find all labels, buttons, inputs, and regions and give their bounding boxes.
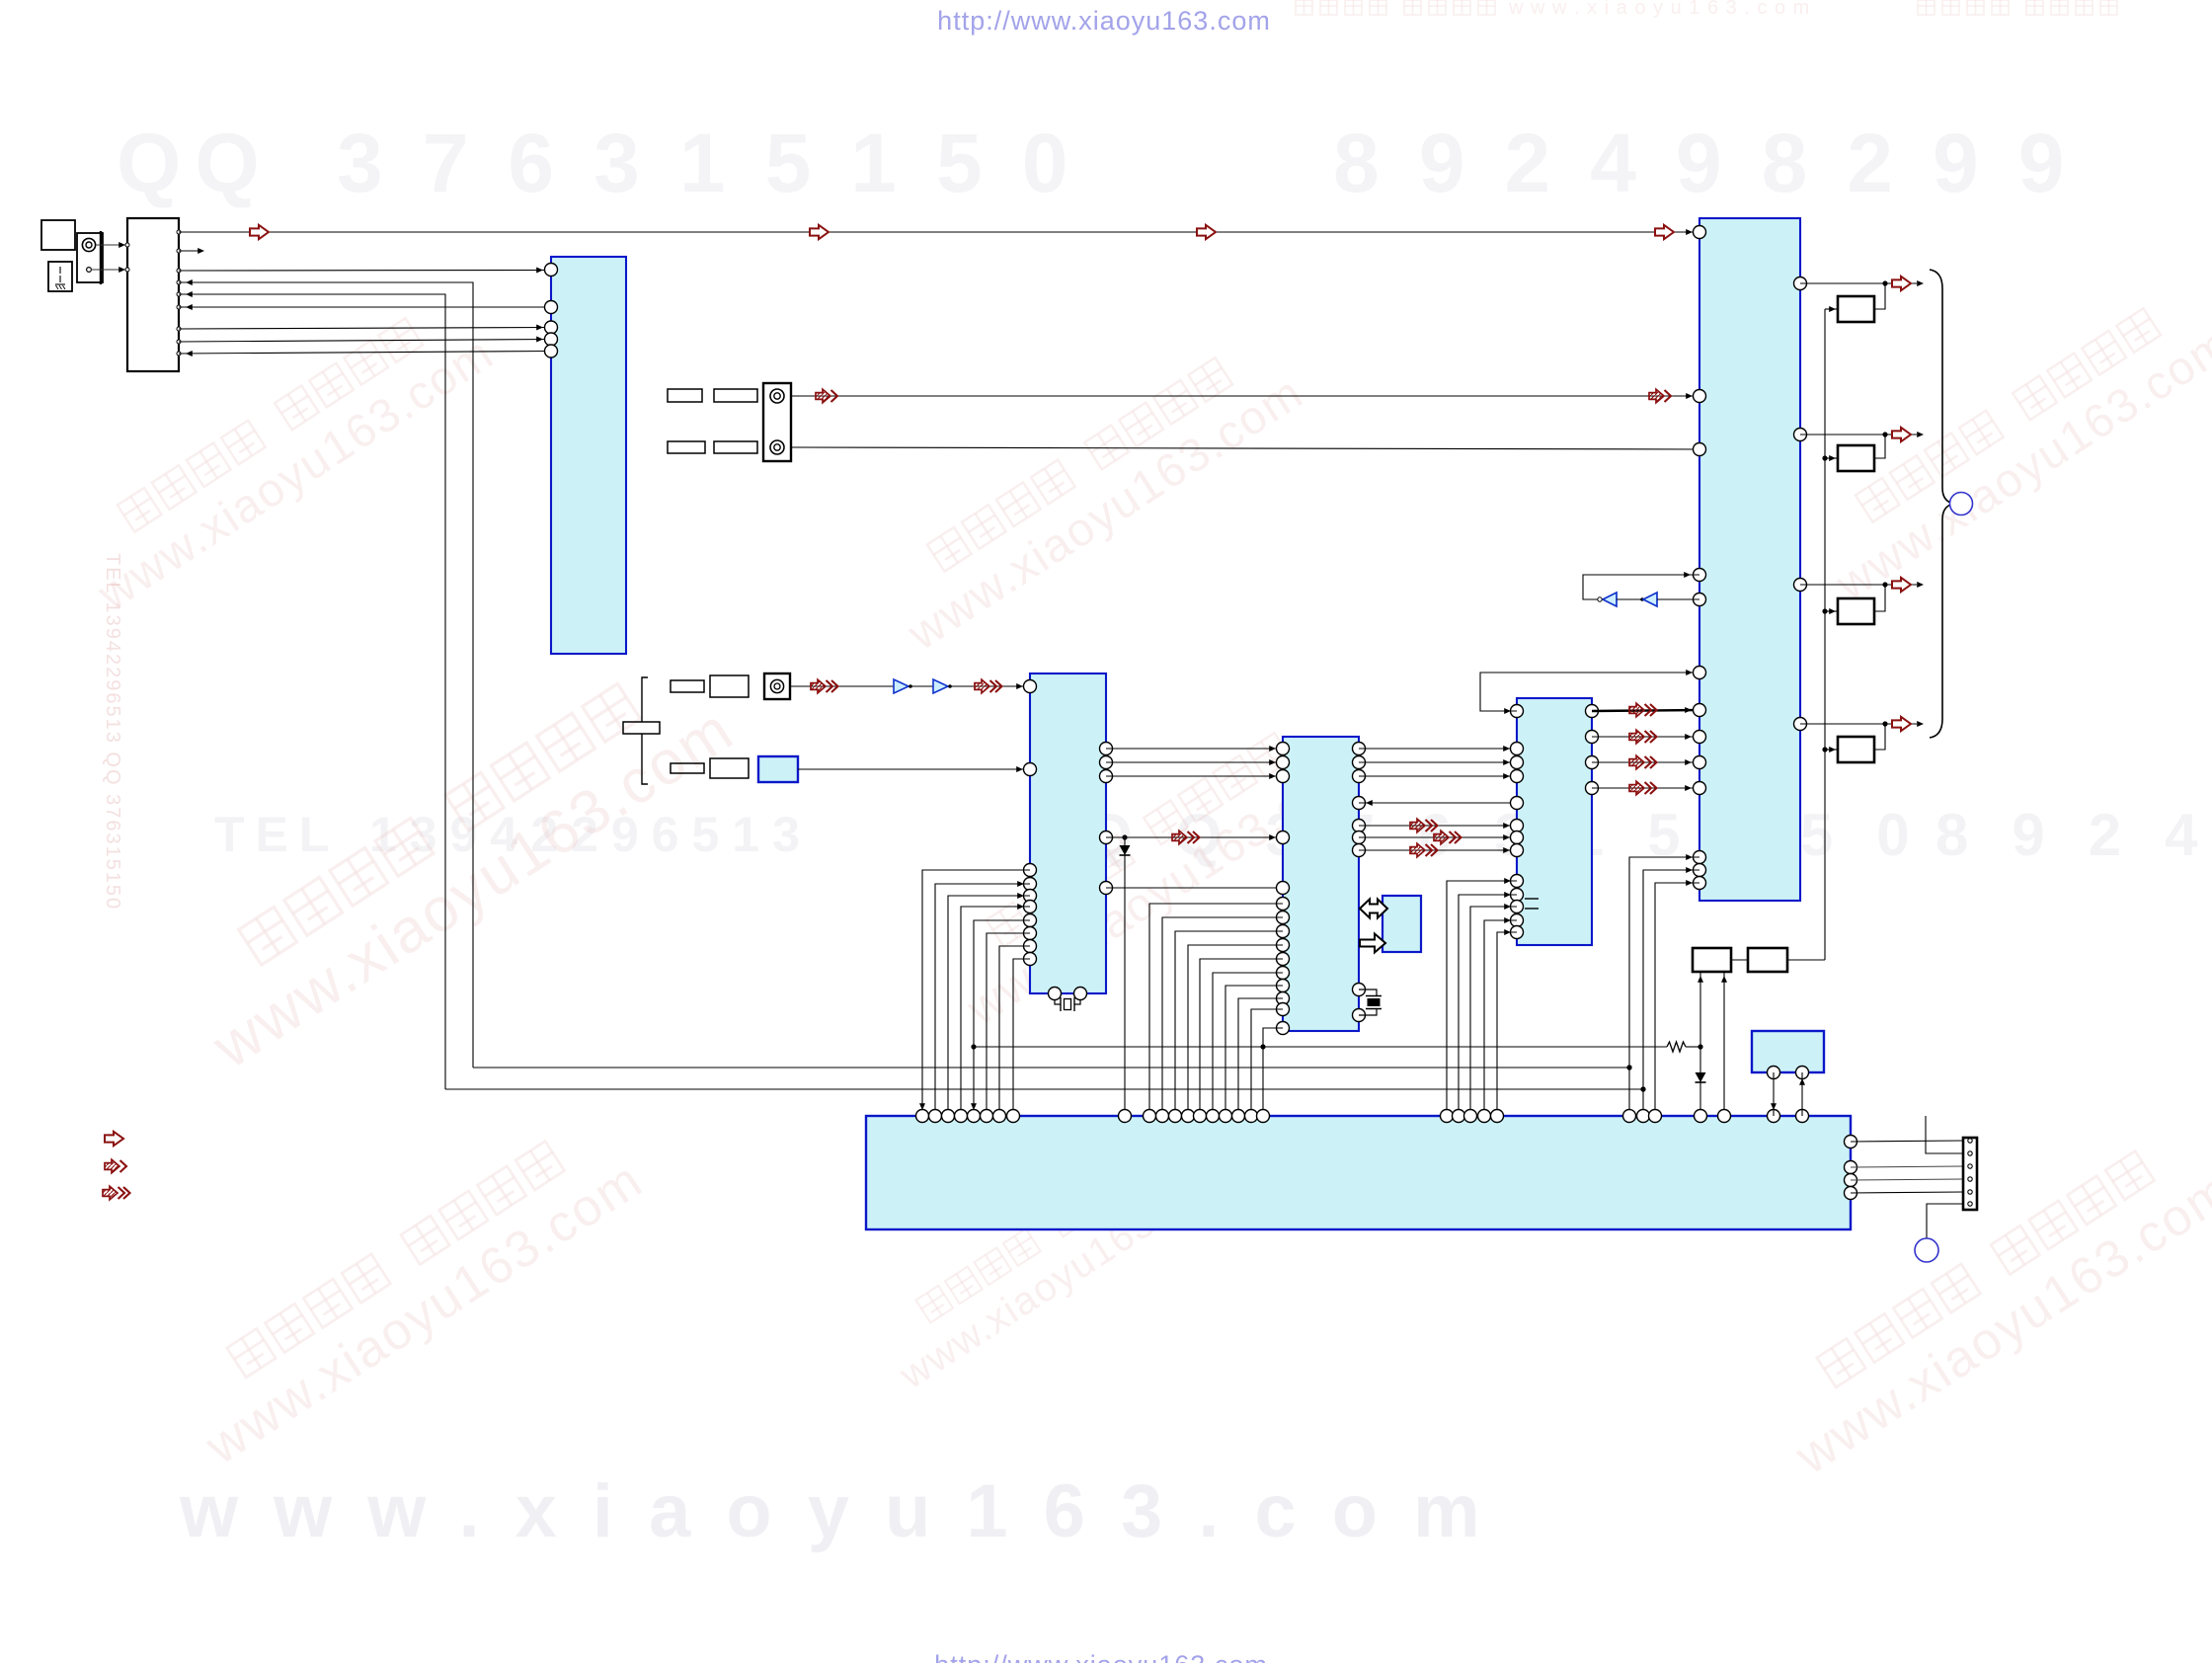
U2 lower-left pin y907 [1024,890,1037,903]
CN2 hole 4 [1968,1177,1972,1181]
down arrows into U6 group1 [919,1103,925,1110]
open arrow on TOP wire 2 [810,225,829,239]
U6 right pin y1195 [1845,1174,1857,1187]
thick wire U4-U5 y719 hatched [1592,710,1699,711]
watermark pink diagonal 4 [1802,279,2212,611]
filter box at y451 [1838,445,1874,471]
U6 top pin x999 [981,1110,993,1123]
wire U6 to strip hole3 [1851,1166,1963,1167]
U3 right pin y836 [1353,820,1366,832]
wire CN1 to U1 pin5 [179,352,551,355]
block U7 (small cyan box above U6 right) [1752,1031,1824,1072]
crystal X1 under U2 [1055,1000,1061,1005]
watermark pink diagonal 7 [168,1109,653,1476]
wire J4 to U2 pin (y695) [790,685,1030,687]
U6 top pin x1215 [1194,1110,1207,1123]
wire U2 pin y971 down to U6 at x1026 [1013,959,1030,1116]
U4 right pin y798 [1586,782,1599,795]
box U9 (small cyan box right of U3) [1382,896,1421,952]
resistor R5 [714,441,757,453]
U3 right pin y786 [1353,770,1366,783]
IC U4 (cyan block) [1517,698,1592,945]
U5 left pin y894 [1694,877,1706,890]
wire J2 to connector pin 1 [96,244,125,246]
inverter INV1 [1603,593,1617,606]
wire U3 pin y998 down to U6 at x1241 [1225,986,1283,1116]
hatched arrow dangling 2 [105,1159,119,1173]
U6 top pin x1139 [1119,1110,1132,1123]
U6 top pin x1746 [1718,1110,1731,1123]
box SW1 with antenna symbol [48,262,72,291]
U2 lower-left pin y932 [1024,914,1037,927]
U6 top pin x1228 [1207,1110,1220,1123]
IC U1 (tall cyan block) [551,257,626,654]
wire INV2 to U5 pin [1657,598,1699,600]
U2 right pin y772 [1100,756,1113,769]
U5 right pin y287 [1794,277,1807,290]
svg-text:TEL: TEL [214,807,340,862]
svg-text:w w w . x i a o y u 1 6 3 . c: w w w . x i a o y u 1 6 3 . c o m [1508,0,1810,19]
U4 left pin y758 [1511,743,1524,755]
double arrow U3-U9 [1360,900,1387,918]
U6 top pin x1796 [1768,1110,1780,1123]
strip connector CN2 [1963,1138,1977,1210]
U6 top pin x1477 [1453,1110,1465,1123]
CN2 hole 2 [1968,1151,1972,1155]
wire U5 right pin y440 [1800,434,1885,436]
IC U3 (cyan block) [1283,737,1359,1031]
U4 lower-left pin y944 [1511,926,1524,939]
U6 top pin x986 [968,1110,981,1123]
wire U7 down to U6 [1773,1072,1775,1116]
connector CN1 right pin y346 [177,340,181,344]
U7 bottom pins [1768,1067,1780,1079]
hatched arrow on wire y401 near J3 [816,389,830,403]
wire U4 pin y892 down to U6 at x1465 [1447,881,1517,1116]
box B1 of chain [1693,948,1731,972]
wire U4 pin y944 down to U6 at x1516 [1497,932,1517,1116]
U6 right pin y1208 [1845,1187,1857,1200]
stub wire to strip hole2 [1926,1116,1963,1153]
wire to filter box y733 [1874,724,1885,750]
U3 lower-left pin y929 [1277,911,1290,924]
wire U5 right pin y592 [1800,584,1885,586]
wire J3 to U5 pin (y401) [791,395,1699,397]
U3 lower-left pin y915 [1277,898,1290,911]
svg-text:892498299: 892498299 [1333,117,2103,209]
U2 lower-left pin y971 [1024,953,1037,966]
wire CN1 to U1 pin2 [179,306,551,308]
U4 lower-left pin y918 [1511,901,1524,913]
wires U5 lower-left to U6 group4 [1629,857,1699,1116]
wire between inverters [1617,598,1641,600]
open arrow dangling 1 [105,1132,123,1146]
wire U6 up to B1 (with diode D2) [1699,972,1701,1116]
U6 top pin x1650 [1623,1110,1636,1123]
open arrow on TOP wire 4 [1655,225,1674,239]
U6 top pin x1241 [1220,1110,1232,1123]
U6 top pin x1267 [1245,1110,1258,1123]
wire U4-U5 y798 hatched [1592,787,1699,789]
filter box at y300 [1838,296,1874,322]
wire U3-U4 y836 hatched [1359,825,1517,827]
U6 top pin x1489 [1464,1110,1477,1123]
U6 top pin x1177 [1156,1110,1169,1123]
U4 left pin y836 [1511,820,1524,832]
U4 left pin y861 [1511,844,1524,857]
U3 left pin y772 [1277,756,1290,769]
blue circle node bottom [1915,1238,1938,1262]
U3 right pin y861 [1353,844,1366,857]
wire U2 pin y918 down to U6 at x973 [961,907,1030,1116]
connector CN1 right pin y311 [177,305,181,309]
U2 bottom pins [1049,988,1062,1000]
U6 top pin x1190 [1169,1110,1182,1123]
wire U3 pin y915 down to U6 at x1164 [1149,904,1283,1116]
connector CN1 right pin y254 [177,249,181,253]
U4 left pin y786 [1511,770,1524,783]
wire U2 pin y945 down to U6 at x999 [987,933,1030,1116]
CN2 hole 1 [1968,1139,1972,1143]
svg-text:www.xiaoyu163.com: www.xiaoyu163.com [179,1469,1516,1553]
U5 left pin y746 [1694,731,1706,744]
box J1 (small square) [41,220,75,250]
small cyan box U8 [758,756,798,782]
wire U3-U4 y861 hatched [1359,849,1517,851]
U3 left pin y848 [1277,831,1290,844]
connector CN1 right pin y298 [177,292,181,296]
resistor R1 on bus A [1667,1042,1686,1052]
U3 left pin y786 [1277,770,1290,783]
U2 right pin y758 [1100,743,1113,755]
U6 top pin x1164 [1144,1110,1156,1123]
wire filter box to rail y440 [1825,457,1838,459]
U6 top pin x1503 [1478,1110,1491,1123]
svg-text:http://www.xiaoyu163.com: http://www.xiaoyu163.com [934,1650,1268,1663]
resistor R2 [668,389,702,402]
open arrow y287 [1892,277,1911,290]
CN2 hole 3 [1968,1164,1972,1168]
U2 lower-left pin y881 [1024,864,1037,877]
IC U6 (bottom long cyan block) [866,1116,1851,1229]
U6 top pin x934 [916,1110,929,1123]
U3 right pin y758 [1353,743,1366,755]
watermark pink diagonal 6 [1758,1119,2212,1486]
U6 top pin x960 [942,1110,955,1123]
wire U8 to U2 pin (y779) [798,768,1030,770]
U6 top pin x1722 [1695,1110,1707,1123]
wire between chain boxes [1731,959,1748,961]
wire filter box to rail y592 [1825,610,1838,612]
U5 left pin y719 [1694,704,1706,717]
bus wire B horizontal [473,1067,1629,1069]
watermark pink diagonal 8 [871,1118,1240,1397]
wire CN1 to U1 pin3 [179,328,551,330]
open arrow y440 [1892,428,1911,441]
U6 right pin y1182 [1845,1161,1857,1174]
U3 lower-left pin y985 [1277,967,1290,980]
wire CN1 pin5 to bus C [179,294,445,1089]
U6 top pin x1676 [1649,1110,1662,1123]
wire U3 pin y929 down to U6 at x1177 [1162,917,1283,1116]
wire U3 pin y943 down to U6 at x1190 [1175,931,1283,1116]
wire U2 pin y907 down to U6 at x960 [948,896,1030,1116]
single arrow U3-U9 [1360,934,1385,953]
crystal X2 right of U3 [1359,990,1377,995]
svg-text:http://www.xiaoyu163.com: http://www.xiaoyu163.com [937,6,1271,36]
U2 left pins top [1024,680,1037,693]
wire to filter box y592 [1874,585,1885,611]
connector CN1 right pin y358 [177,352,181,356]
wire filter box to rail y287 [1825,308,1838,310]
U6 top pin x1279 [1257,1110,1270,1123]
bus wire A horizontal [974,1046,1667,1048]
U6 top pin x1203 [1182,1110,1195,1123]
U6 top pin x1254 [1232,1110,1245,1123]
U5 left pin y235 [1694,226,1706,239]
wire U4 pin y932 down to U6 at x1503 [1484,920,1517,1116]
box B2 of chain [1748,948,1787,972]
U3 lower-left pin y957 [1277,939,1290,952]
wire U3 pin y1011 down to U6 at x1254 [1238,998,1283,1116]
wire U6 up to B1 second [1723,972,1725,1116]
U3 left pin y899 [1277,882,1290,895]
wire net TOP from CN1 to U5 [179,231,1699,233]
U3 left pin y758 [1277,743,1290,755]
wire U4 wrap to U5 pin y682 [1480,673,1699,711]
U1 pin y331.5 [545,321,558,334]
connector CN1 left pins [125,243,129,247]
hatched arrow on wire y695 near J4 [811,679,826,693]
U3 right pin y813 [1353,797,1366,810]
wire U6 to strip hole5 [1851,1192,1963,1193]
inverter INV2 [1643,593,1657,606]
watermark top-right faint pink row [1296,0,2117,19]
wire J2 to connector pin 2 [91,269,125,271]
capacitor dashes inside U4 [1525,898,1539,900]
wire CN1 to U1 pin4 [179,340,551,343]
RCA jack J2 [77,233,103,282]
U4 lower-left pin y892 [1511,875,1524,888]
wire U2-U3 y786 [1106,775,1283,777]
U5 left pin y772 [1694,756,1706,769]
wire U3 pin y1041 down to U6 at x1279 [1263,1028,1283,1116]
U5 left pin y681 [1694,667,1706,679]
U2 right pin y786 [1100,770,1113,783]
wire strip hole6 to blue node [1927,1204,1963,1238]
U4 lower-left pin y932 [1511,914,1524,927]
connector CN1 right pin y274 [177,269,181,273]
hatched arrow on wire y695 near U2 [975,679,989,693]
U3 lower-left pin y998 [1277,980,1290,992]
connector CN1 right pin y286 [177,280,181,284]
U6 right pin y1156 [1845,1136,1857,1148]
wire U4 pin y906 down to U6 at x1477 [1459,895,1517,1116]
U6 top pin x1465 [1441,1110,1454,1123]
U3 lower-left pin y943 [1277,925,1290,938]
U5 right pin y733 [1794,718,1807,731]
U6 top pin x947 [929,1110,942,1123]
U6 top pin x1012 [993,1110,1006,1123]
resistor R8 [671,763,704,773]
U4 right pin y746 [1586,731,1599,744]
resistor R6 [671,680,704,692]
wire U4-U5 y772 hatched [1592,761,1699,763]
svg-text:376315150: 376315150 [337,117,1107,209]
U3 right pin y848 [1353,831,1366,844]
inverter loop wires at U5 [1583,575,1699,599]
U4 left pin y772 [1511,756,1524,769]
U2 lower-left pin y918 [1024,901,1037,913]
U5 left pin y401 [1694,390,1706,403]
U3 lower-left pin y1041 [1277,1022,1290,1035]
U4 left pin y813 [1511,797,1524,810]
U5 left pin y607 [1694,594,1706,606]
U6 top pin x1516 [1491,1110,1504,1123]
U2 lower-left pin y958 [1024,940,1037,953]
wire U3 pin y957 down to U6 at x1203 [1188,945,1283,1116]
U2 lower-left pin y895 [1024,878,1037,891]
wire U2 pin y958 down to U6 at x1012 [999,946,1030,1116]
wire U4-U5 y746 hatched [1592,736,1699,738]
wire filter box to rail y733 [1825,749,1838,751]
U4 right pin y772 [1586,756,1599,769]
U4 left pin y848 [1511,831,1524,844]
U3 right pin y772 [1353,756,1366,769]
filter box at y746 [1838,737,1874,762]
watermark pink diagonal 1 [64,289,504,621]
U4 lower-left pin y906 [1511,889,1524,902]
U3 lower-left pin y1011 [1277,992,1290,1005]
U4 right pin y720 [1586,705,1599,718]
buffer B2 [933,679,948,693]
wire U3-U4 y786 [1359,775,1517,777]
wire U2-U3 y758 [1106,748,1283,750]
U6 top pin x973 [955,1110,968,1123]
watermark pink diagonal 3 [874,329,1313,661]
wire U6 to strip hole4 [1851,1179,1963,1180]
wire U2-U3 y899 [1106,887,1283,889]
diode D1 [1124,837,1126,1116]
resistor R9 [710,758,749,778]
connector CN1 right pin y235 [177,230,181,234]
wire U4 pin y918 down to U6 at x1489 [1470,907,1517,1116]
wire U6 to strip hole1 [1851,1141,1963,1142]
U1 pin y311 [545,301,558,314]
open arrow on TOP wire 1 [250,225,269,239]
wire CN1 to U1 pin1 [179,270,551,273]
U2 lower-left pin y945 [1024,927,1037,940]
brace bracket right of outputs [1930,270,1954,738]
U4 left pin y720 [1511,705,1524,718]
wire U3-U4 y772 [1359,761,1517,763]
resistor R3 [714,389,757,402]
buffer B1 [894,679,908,693]
filter box at y606 [1838,598,1874,624]
U1 pin y273 [545,264,558,277]
wire J3 to U5 pin (y455) [791,447,1699,449]
junction dots bus A [971,1044,976,1049]
wire U3 pin y1022 down to U6 at x1267 [1251,1009,1283,1116]
RCA jack J3 [763,383,791,461]
vertical rail right of U5 [1824,309,1826,960]
watermark pink diagonal 5 [933,704,1373,1036]
open arrow y592 [1892,578,1911,592]
resistor R7 [710,675,749,697]
wire U2-U3 y848 with hatched arrow [1106,836,1283,838]
wire rail to box chain [1787,959,1825,961]
U5 right pin y440 [1794,429,1807,441]
wire U2 pin y881 down to U6 at x934 [922,870,1030,1116]
wire U3-U4 y848 hatched [1359,836,1517,838]
hatched arrow on wire y401 near U5 [1649,389,1664,403]
blue circle node at brace [1950,493,1973,515]
U3 right pin y1002 [1353,984,1366,996]
component box on bracket [623,722,660,734]
wire stub with arrow from CN1 pin2 [179,250,200,252]
wire U3 pin y971 down to U6 at x1215 [1200,959,1283,1116]
wire to filter box y287 [1874,283,1885,309]
wire U5 right pin y733 [1800,723,1885,725]
IC U5 (large right cyan block) [1699,218,1800,901]
wire U2-U3 y772 [1106,761,1283,763]
watermark left vertical red text [102,553,123,911]
arrowheads into U2 lower pins [1017,881,1024,887]
watermark pink diagonal 2 [169,646,747,1082]
U1 pin y343.5 [545,333,558,346]
U3 lower-left pin y1022 [1277,1003,1290,1016]
IC U2 (cyan block) [1030,673,1106,993]
U3 right pin y1028 [1353,1009,1366,1022]
CN2 hole 5 [1968,1190,1972,1194]
U1 pin y355.5 [545,345,558,357]
wire U2 pin y895 down to U6 at x947 [935,884,1030,1116]
RCA jack J4 [764,673,790,699]
wire U6 up to U7 [1801,1072,1803,1116]
hatched arrow dangling 3 [103,1186,118,1200]
wire U5 right pin y287 [1800,282,1885,284]
U5 right pin y592 [1794,579,1807,592]
U5 left pin y798 [1694,782,1706,795]
open arrow y733 [1892,717,1911,731]
CN2 hole 6 [1968,1202,1972,1206]
wire U4-U3 y813 (arrow left) [1359,802,1517,804]
connector CN1 right pin y333 [177,327,181,331]
connector CN1 (tall rectangle) [127,218,179,371]
wire CN1 pin4 to bus B [179,282,473,1068]
bracket for audio group [642,677,648,722]
open arrow on TOP wire 3 [1197,225,1216,239]
U6 top pin x1026 [1007,1110,1020,1123]
svg-text:QQ: QQ [117,117,274,209]
wire to filter box y440 [1874,435,1885,458]
bus wire C horizontal [445,1088,1643,1090]
U3 lower-left pin y971 [1277,953,1290,966]
wire U3-U4 y758 [1359,748,1517,750]
U6 top pin x1825 [1796,1110,1809,1123]
wire U3 pin y985 down to U6 at x1228 [1213,973,1283,1116]
U2 right pin y899 [1100,882,1113,895]
U2 right pin y848 [1100,831,1113,844]
U5 left pin y582 [1694,569,1706,582]
svg-text:89249: 89249 [1935,802,2212,868]
wire U2 pin y932 down to U6 at x986 [974,920,1030,1116]
U5 left pin y455 [1694,443,1706,456]
resistor R4 [668,441,705,453]
U5 left pin y881 [1694,864,1706,877]
U5 left pin y868 [1694,851,1706,864]
U6 top pin x1664 [1637,1110,1650,1123]
